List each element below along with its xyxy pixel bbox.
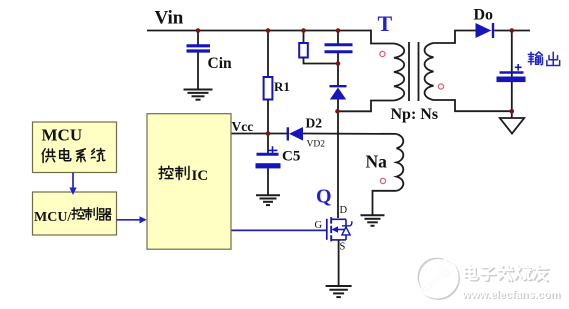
- svg-text:C5: C5: [282, 149, 300, 165]
- svg-text:IC: IC: [192, 168, 209, 184]
- svg-text:MCU/: MCU/: [34, 210, 72, 225]
- svg-text:Cin: Cin: [208, 55, 233, 72]
- svg-text:Do: Do: [474, 7, 494, 24]
- svg-text:Vin: Vin: [155, 8, 184, 29]
- svg-text:Np: Ns: Np: Ns: [391, 106, 439, 123]
- svg-text:MCU: MCU: [42, 125, 83, 144]
- svg-text:www.elecfans.com: www.elecfans.com: [461, 289, 560, 301]
- svg-text:Vcc: Vcc: [232, 119, 254, 134]
- svg-text:T: T: [378, 11, 393, 36]
- svg-text:G: G: [315, 220, 323, 231]
- svg-text:R1: R1: [274, 79, 290, 94]
- svg-text:Na: Na: [366, 152, 388, 172]
- svg-text:Q: Q: [316, 186, 332, 208]
- svg-text:VD2: VD2: [307, 139, 326, 149]
- svg-text:D2: D2: [306, 116, 323, 131]
- svg-text:S: S: [340, 242, 346, 253]
- svg-text:D: D: [340, 205, 348, 216]
